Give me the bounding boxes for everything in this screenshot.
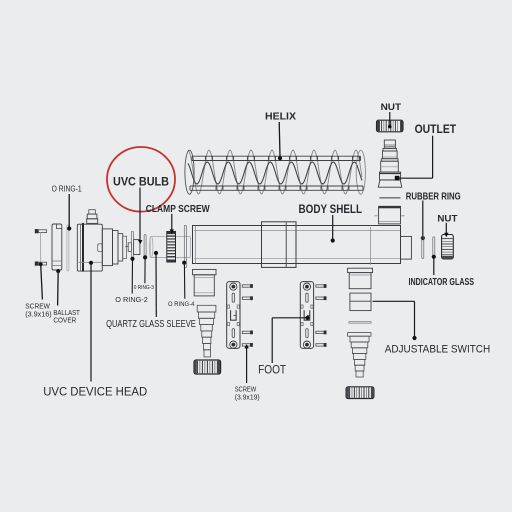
svg-text:NUT: NUT	[437, 213, 457, 224]
svg-text:BODY SHELL: BODY SHELL	[299, 202, 363, 216]
svg-text:O RING-2: O RING-2	[115, 295, 148, 304]
svg-text:RUBBER RING: RUBBER RING	[406, 191, 461, 202]
svg-text:CLAMP SCREW: CLAMP SCREW	[146, 203, 210, 215]
svg-text:ADJUSTABLE SWITCH: ADJUSTABLE SWITCH	[385, 344, 491, 356]
svg-text:BALLAST: BALLAST	[53, 310, 80, 317]
svg-text:(3.9x19): (3.9x19)	[235, 394, 260, 401]
svg-text:NUT: NUT	[381, 102, 402, 113]
svg-text:0 RING-3: 0 RING-3	[134, 285, 154, 291]
svg-text:SCREW: SCREW	[235, 387, 257, 394]
svg-text:QUARTZ GLASS SLEEVE: QUARTZ GLASS SLEEVE	[106, 319, 196, 330]
svg-text:HELIX: HELIX	[265, 111, 296, 122]
svg-text:SCREW: SCREW	[25, 303, 50, 310]
svg-text:O RING-4: O RING-4	[168, 301, 195, 308]
svg-text:OUTLET: OUTLET	[415, 124, 457, 136]
svg-text:UVC BULB: UVC BULB	[113, 174, 169, 188]
svg-text:O RING-1: O RING-1	[52, 185, 82, 194]
svg-text:COVER: COVER	[53, 318, 76, 325]
svg-text:(3.9x16): (3.9x16)	[25, 312, 51, 319]
svg-text:FOOT: FOOT	[258, 365, 286, 377]
svg-text:UVC DEVICE HEAD: UVC DEVICE HEAD	[43, 386, 147, 398]
svg-text:INDICATOR GLASS: INDICATOR GLASS	[409, 276, 475, 288]
